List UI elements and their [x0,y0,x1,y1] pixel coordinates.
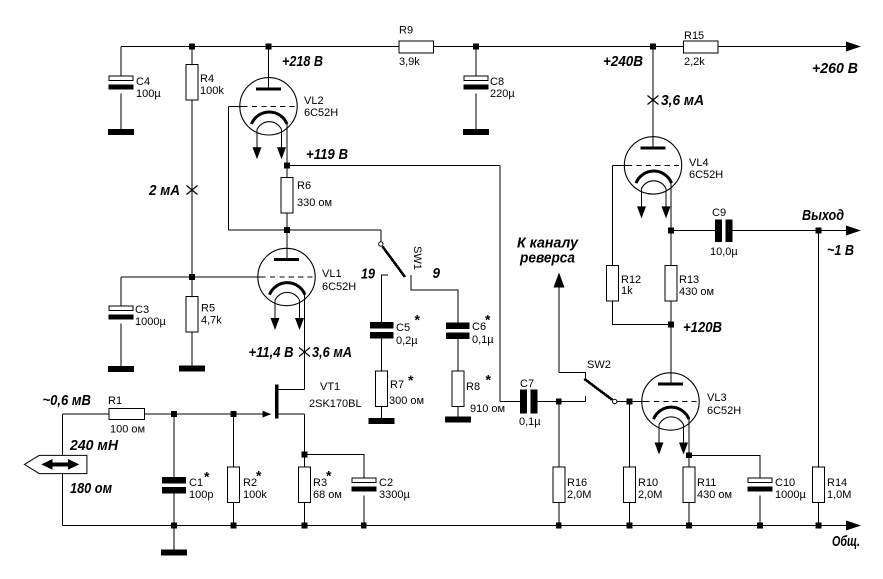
svg-text:2,2k: 2,2k [684,56,705,68]
resistor R5 [186,297,198,333]
wire C9 right to output arrow [733,230,848,232]
wire VT1 source down to R3 node [304,414,306,454]
wire cathode node to C10 [689,455,760,478]
ground below R7 [369,418,395,424]
node bus C2 [361,523,367,529]
resistor R13 [665,266,677,302]
arrow common bus end [846,521,861,531]
svg-text:*: * [415,312,421,328]
svg-text:~1 В: ~1 В [827,242,854,259]
resistor R4 [186,65,198,101]
svg-text:3300µ: 3300µ [379,489,410,501]
capacitor C2 [351,478,376,491]
svg-text:+11,4 В: +11,4 В [249,344,294,361]
svg-text:100µ: 100µ [136,88,161,100]
wire C7 right lead to SW2 contact [538,401,586,403]
svg-text:330 ом: 330 ом [297,197,332,209]
svg-text:3,6 мА: 3,6 мА [661,92,704,109]
node R3 C2 junction [302,452,308,458]
svg-text:реверса: реверса [519,250,575,267]
svg-text:R2: R2 [243,477,257,489]
svg-text:+260 В: +260 В [812,60,858,77]
wire VL1 cathode lead [304,295,306,390]
svg-text:430 ом: 430 ом [679,286,714,298]
wire R7 bottom lead [381,407,383,418]
capacitor C4 [109,76,134,89]
node bus R14 [816,523,822,529]
capacitor C8 [464,76,489,89]
wire C5 to R7 [381,339,383,372]
wire R2 bottom lead [233,503,235,526]
arrow VT1 gate [263,411,272,418]
resistor R9 [399,41,434,53]
ground below C4 [108,129,134,135]
svg-text:SW1: SW1 [411,246,423,270]
wire VL2 grid stub [229,105,243,107]
svg-text:9: 9 [433,265,441,282]
svg-text:10,0µ: 10,0µ [710,246,738,258]
resistor R2 [228,467,240,503]
resistor R1 [109,408,145,419]
ground below C8 [463,129,489,135]
wire C9 left lead [671,230,715,232]
svg-text:430 ом: 430 ом [697,489,732,501]
svg-text:SW2: SW2 [587,359,611,371]
resistor R16 [553,467,565,503]
wire C8 top lead [475,47,477,77]
node VL3 grid R10 junction [627,399,633,405]
svg-text:+218 В: +218 В [282,53,323,70]
wire R13 top lead [670,231,672,266]
wire input column lower [62,474,64,526]
current cross 2 mA [187,186,198,195]
node C7 R16 junction [556,399,562,405]
op-amp triode VL3 [642,373,699,455]
wire R8 bottom lead [457,407,459,417]
svg-text:C9: C9 [712,207,726,219]
svg-text:R10: R10 [638,477,658,489]
resistor R10 [624,467,636,503]
switch SW2 arm [584,379,612,400]
wire VL2 grid down to VL1 anode node [228,106,230,230]
wire VT1 gate lead [145,413,264,415]
node junction R4 R5 grid [189,274,195,280]
svg-text:*: * [256,468,262,484]
svg-text:19: 19 [361,266,376,283]
wire R3 top lead [304,455,306,468]
svg-text:~0,6 мВ: ~0,6 мВ [43,392,92,409]
node +119V junction [284,163,290,169]
wire R10 top lead [629,402,631,468]
capacitor C1 [162,477,186,494]
wire R11 bottom lead [688,503,690,526]
input head symbol [24,455,87,473]
svg-text:100k: 100k [243,489,267,501]
switch SW1 pole circle [379,242,383,246]
svg-text:2 мА: 2 мА [148,182,180,199]
svg-text:VL2: VL2 [304,95,324,107]
svg-text:R9: R9 [399,25,413,37]
wire R2 top lead [233,414,235,467]
wire C10 bottom lead [759,495,761,525]
wire VL4 cathode lead [670,183,672,230]
input head double arrow [50,462,70,466]
wire R4 bottom lead long [191,100,193,277]
svg-text:0,1µ: 0,1µ [472,334,494,346]
node +120V junction [668,322,674,328]
svg-text:100k: 100k [200,85,224,97]
svg-text:100p: 100p [189,489,213,501]
svg-text:R7: R7 [390,379,404,391]
wire VL4 grid down to R12 [612,165,614,265]
wire ground stub bottom [173,526,175,550]
wire +119V down to C7 [499,166,501,402]
wire R10 bottom lead [629,503,631,526]
svg-text:*: * [486,372,492,388]
wire C1 top lead [173,414,175,477]
wire R14 bottom lead [818,503,820,526]
capacitor C5 [370,322,394,339]
node rail junction VL2 anode [266,44,272,50]
svg-text:C4: C4 [136,76,150,88]
svg-text:R3: R3 [313,477,327,489]
svg-text:220µ: 220µ [490,88,515,100]
svg-text:C2: C2 [379,477,393,489]
node rail junction VL4 anode [650,44,656,50]
svg-text:R13: R13 [679,274,699,286]
wire VL2 anode lead [268,47,270,89]
svg-text:1,0M: 1,0M [827,489,851,501]
wire VT1 source horizontal [279,413,305,415]
svg-text:C1: C1 [189,477,203,489]
svg-text:6C52H: 6C52H [322,281,356,293]
svg-text:C7: C7 [520,378,534,390]
node bus R11 [686,523,692,529]
wire SW1 contact 9 route to C6 [411,275,458,323]
switch SW2 pole circle [613,399,617,403]
node C1 junction [171,411,177,417]
wire R14 top lead long [818,231,820,468]
node bus C1 [171,523,177,529]
ground below R8 [445,416,471,422]
op-amp triode VL4 [624,137,681,219]
capacitor C6 [446,323,470,340]
arrow output [846,226,861,236]
svg-text:240 мН: 240 мН [69,437,119,454]
wire R3 bottom lead [304,503,306,526]
svg-text:C3: C3 [135,304,149,316]
svg-text:Выход: Выход [802,207,844,224]
current cross 3.6 mA VL4 [648,96,659,105]
wire +119V to C7 column [287,165,500,167]
svg-text:1k: 1k [621,285,633,297]
op-amp triode VL2 [240,78,297,160]
wire C6 to R8 [457,339,459,371]
svg-text:R5: R5 [201,303,215,315]
svg-text:+240В: +240В [603,53,643,70]
svg-text:300 ом: 300 ом [389,395,424,407]
wire VL1 anode node to SW1 [229,229,381,231]
arrow +260 V rail end [846,42,861,52]
svg-text:6C52H: 6C52H [304,107,338,119]
op-amp triode VL1 [258,248,315,330]
svg-text:4,7k: 4,7k [201,315,222,327]
current cross 3.6 mA VL1 [299,348,310,357]
wire R13 bottom lead [670,301,672,324]
ground below R5 [179,366,205,372]
node output R14 junction [816,228,822,234]
wire VL3 cathode lead [688,419,690,467]
wire C4 bottom lead [120,93,122,129]
wire R12 bottom to +120V node [613,301,671,324]
node rail junction C8 [473,44,479,50]
wire top supply rail right segment [718,46,848,48]
resistor R14 [813,467,825,503]
transistor VT1 channel bar [275,384,279,418]
resistor R7 [376,371,388,407]
ground below C3 [108,366,134,372]
svg-text:0,2µ: 0,2µ [396,335,418,347]
wire input to R1 [63,413,109,415]
svg-text:C10: C10 [775,477,795,489]
resistor R15 [684,41,719,53]
wire R3 node to C2 [305,455,364,479]
svg-text:*: * [204,469,210,485]
wire VL1 anode lead [286,230,288,258]
svg-text:3,6 мА: 3,6 мА [312,344,352,361]
wire R5 top lead [191,277,193,297]
wire C3 top lead [120,277,122,306]
wire SW2 upper contact jog [559,372,586,379]
svg-text:*: * [485,312,491,328]
capacitor C10 [748,478,773,491]
ground bottom bus [161,550,187,556]
svg-text:VL1: VL1 [322,268,342,280]
svg-text:2,0M: 2,0M [638,489,662,501]
wire C8 bottom lead [475,93,477,129]
wire input column upper [62,414,64,456]
wire SW2 pole to VL3 grid [617,401,645,403]
svg-text:*: * [408,372,414,388]
svg-text:6C52H: 6C52H [689,169,723,181]
node bus C10 [757,523,763,529]
svg-text:R8: R8 [466,381,480,393]
resistor R3 [299,467,311,503]
svg-text:+119 В: +119 В [306,146,348,163]
svg-text:R11: R11 [697,477,716,489]
wire VL4 anode lead [652,47,654,148]
capacitor C7 [520,390,527,414]
wire R6 bottom lead [286,213,288,230]
svg-text:R6: R6 [297,180,311,192]
wire R4 top lead [191,47,193,65]
wire R5 bottom lead [191,332,193,365]
svg-text:0,1µ: 0,1µ [519,416,541,428]
node bus R10 [627,523,633,529]
capacitor C9 [715,220,722,243]
svg-text:R4: R4 [200,73,214,85]
node bus R2 [231,523,237,529]
node VL3 cathode junction [686,452,692,458]
wire top supply rail left segment [121,46,399,48]
wire VL4 grid stub [613,164,627,166]
wire SW2 lower contact stub [585,396,587,402]
wire grid bus of VL1 to C3 R5 [121,276,261,278]
svg-text:R16: R16 [567,477,587,489]
svg-text:R15: R15 [684,30,704,42]
svg-text:C8: C8 [490,76,504,88]
svg-text:R14: R14 [827,477,847,489]
svg-text:Общ.: Общ. [832,533,860,550]
node VL4 cathode junction [668,228,674,234]
svg-text:3,9k: 3,9k [399,56,420,68]
node bus R3 [302,523,308,529]
node bus R16 [556,523,562,529]
capacitor C3 [109,306,134,319]
svg-text:2SK170BL: 2SK170BL [309,398,362,410]
wire R16 top lead [558,402,560,468]
node R2 junction [231,411,237,417]
resistor R12 [607,266,619,302]
wire VT1 drain horizontal [279,389,305,391]
arrow to reverse channel [554,273,565,288]
svg-text:1000µ: 1000µ [775,489,806,501]
svg-text:R1: R1 [108,395,122,407]
svg-text:180 ом: 180 ом [70,480,112,497]
switch SW1 arm [382,246,405,277]
wire C2 bottom lead [363,495,365,525]
wire R6 top lead [286,166,288,178]
svg-text:VL4: VL4 [689,157,709,169]
wire C4 top lead [120,47,122,77]
node rail junction C4R4 [189,44,195,50]
wire SW1 contact 19 stub [382,275,388,322]
resistor R8 [452,371,464,407]
wire bottom common bus [63,525,847,527]
svg-text:1000µ: 1000µ [135,316,166,328]
wire reverse channel down to SW2 [558,287,560,372]
svg-text:68 ом: 68 ом [313,489,342,501]
svg-text:2,0M: 2,0M [567,489,591,501]
resistor R6 [281,178,293,214]
wire C7 left lead [500,401,520,403]
svg-text:*: * [326,468,332,484]
svg-text:100 ом: 100 ом [110,424,145,436]
svg-text:VT1: VT1 [320,381,340,393]
wire C3 bottom lead [120,323,122,366]
wire SW1 pole drop [380,230,382,242]
svg-text:C5: C5 [396,322,410,334]
resistor R11 [683,467,695,503]
wire VL3 anode lead [670,325,672,384]
svg-text:+120В: +120В [683,319,722,336]
svg-text:VL3: VL3 [707,392,727,404]
node VL1 anode junction [284,227,290,233]
wire R16 bottom lead [558,503,560,526]
svg-text:C6: C6 [472,321,486,333]
wire VL2 cathode lead [286,124,288,166]
svg-text:6C52H: 6C52H [707,405,741,417]
wire top supply rail middle segment [433,46,684,48]
svg-text:910 ом: 910 ом [470,403,505,415]
wire C1 bottom lead [173,494,175,526]
